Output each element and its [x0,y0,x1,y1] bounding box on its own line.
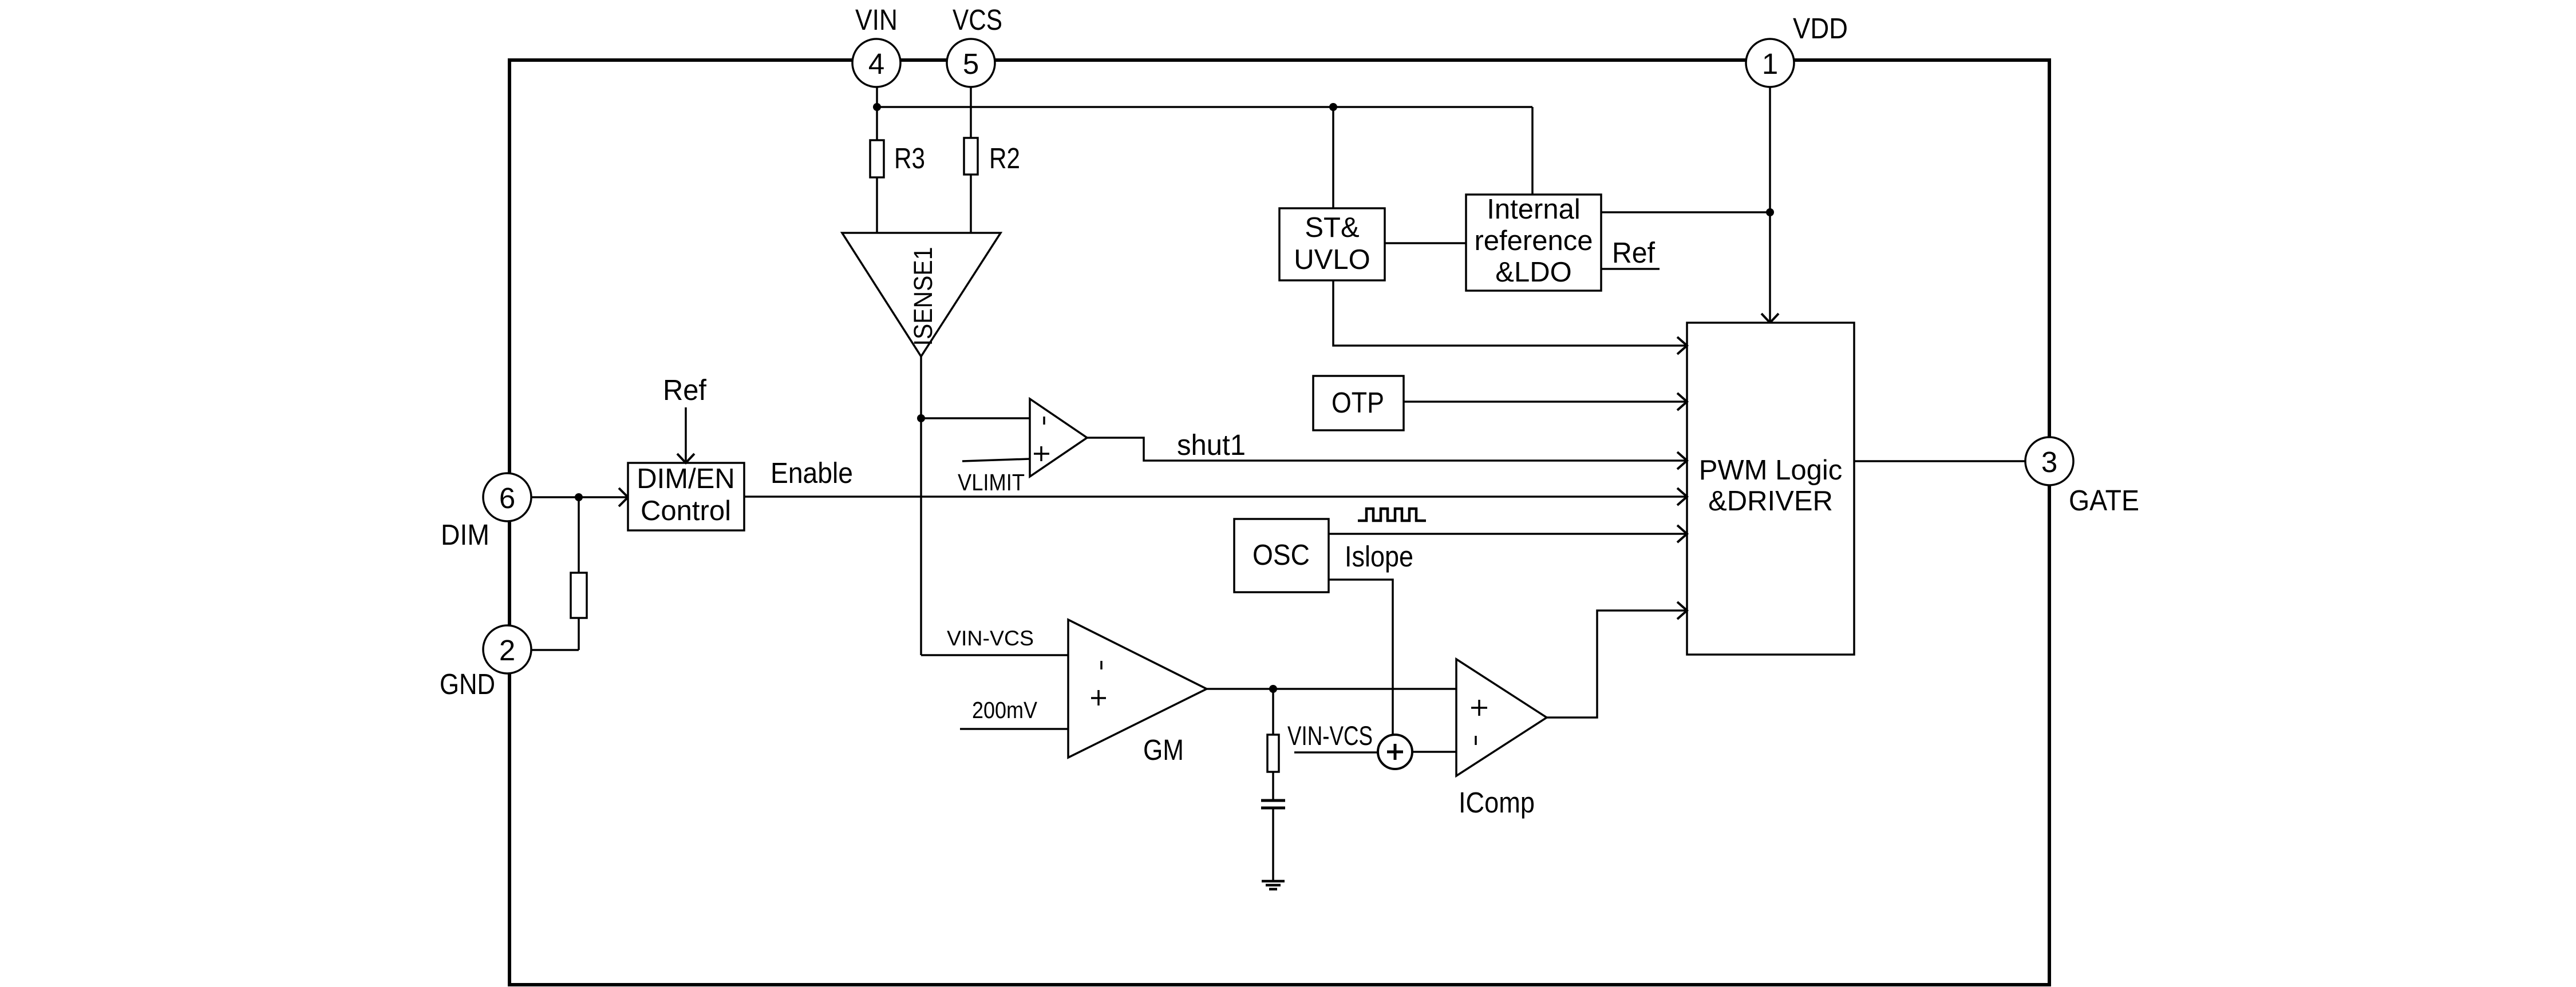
op-amp GM [1068,620,1207,758]
block OSC [1234,519,1329,592]
comparator VLIMIT [1030,399,1087,477]
svg-text:&LDO: &LDO [1495,257,1571,288]
block Internal reference & LDO [1466,194,1601,291]
node ISENSE1 output dot [917,414,925,422]
wire 200mV to GM plus input [960,728,1068,730]
pin 3 GATE [2025,437,2073,485]
op-amp ISENSE1 [842,233,1001,356]
pin 1 VDD [1746,39,1794,87]
wire OSC clock output to PWM [1329,533,1687,535]
wire VDD down to PWM [1769,87,1771,321]
svg-text:Islope: Islope [1345,540,1413,573]
wire to VLIMIT comparator minus input [921,417,1030,419]
svg-text:R3: R3 [894,142,925,175]
svg-text:VIN-VCS: VIN-VCS [947,627,1034,650]
pin 6 DIM wire to DIM/EN [531,496,628,498]
arrow into PWM from shut1 [1677,452,1687,469]
svg-text:200mV: 200mV [972,697,1038,723]
wire DIM pulldown resistor [531,497,579,650]
arrow into PWM from OSC clock [1677,525,1687,542]
block DIM/EN Control [628,463,744,530]
pin 6 DIM [483,473,531,521]
wire PWM output to GATE pin [1854,460,2025,462]
wire VIN-VCS stub into summing node [1294,751,1378,754]
svg-text:Ref: Ref [663,374,707,406]
svg-text:R2: R2 [989,142,1020,175]
svg-text:&DRIVER: &DRIVER [1708,486,1833,517]
block ST&UVLO [1279,208,1385,280]
resistor compensation [1267,735,1279,772]
svg-text:GM: GM [1143,734,1184,766]
wire OTP to PWM [1404,401,1687,403]
node DIM dot [575,493,583,501]
wire ST&UVLO down to PWM [1333,280,1687,346]
block PWM Logic & DRIVER [1687,323,1854,655]
node VDD junction dot [1766,208,1774,216]
resistor R3 [870,140,884,177]
svg-text:reference: reference [1474,225,1593,256]
arrow into PWM from OTP [1677,393,1687,410]
svg-text:5: 5 [963,47,979,80]
svg-text:ST&: ST& [1305,212,1359,243]
arrow into PWM from IComp [1677,602,1687,619]
svg-text:DIM/EN: DIM/EN [637,463,735,494]
svg-text:4: 4 [868,47,884,80]
wire IComp output to PWM [1547,611,1687,718]
svg-text:VCS: VCS [953,3,1002,36]
wire internal reference output to VDD line [1601,211,1770,213]
svg-text:VDD: VDD [1793,12,1848,45]
wire ST&UVLO to internal reference [1385,242,1466,244]
pin 5 VCS [947,39,995,87]
wire ISENSE1 output down [920,356,922,655]
wire VCS pin5 to R2 [970,87,972,233]
svg-text:shut1: shut1 [1177,429,1246,461]
arrow into PWM from Enable [1677,488,1687,505]
wire Enable to PWM [744,496,1687,498]
svg-text:VLIMIT: VLIMIT [958,469,1025,496]
svg-text:Control: Control [641,496,731,526]
wire GM output to IComp plus input [1207,688,1456,690]
arrow into DIM/EN [619,488,628,506]
svg-text:ISENSE1: ISENSE1 [908,247,938,346]
wire Islope to summing node [1329,580,1393,736]
svg-text:GATE: GATE [2069,484,2139,517]
wire branch down to ST&UVLO [1332,107,1334,208]
svg-text:DIM: DIM [441,518,489,551]
svg-text:3: 3 [2041,446,2057,478]
svg-text:Ref: Ref [1612,236,1656,269]
svg-text:UVLO: UVLO [1294,244,1370,275]
svg-text:IComp: IComp [1459,786,1535,819]
wire VIN-VCS to GM minus input [921,654,1068,656]
node GM output dot [1269,685,1277,693]
svg-text:VIN: VIN [855,3,898,36]
node ST&UVLO branch dot [1329,103,1337,111]
wire VIN pin4 to R3 and node [876,87,878,233]
wire Ref arrow down [677,407,694,463]
IC boundary box [509,60,2049,985]
capacitor compensation [1261,800,1285,881]
ground [1262,881,1285,889]
block OTP [1313,376,1404,430]
summing node circle [1378,735,1412,769]
svg-text:2: 2 [499,634,515,667]
wire VIN node horizontal to internal reference [877,107,1532,195]
svg-text:OTP: OTP [1332,386,1384,419]
pin 2 GND [483,625,531,673]
wire to compensation resistor [1272,689,1274,800]
clock waveform symbol [1358,509,1426,521]
wire summing node to IComp minus input [1412,751,1456,753]
svg-text:6: 6 [499,482,515,514]
arrow VDD into PWM [1761,314,1779,323]
svg-text:PWM Logic: PWM Logic [1699,455,1843,486]
svg-text:Enable: Enable [771,457,853,489]
comparator IComp [1456,659,1547,776]
resistor R2 [964,138,978,175]
pin 4 VIN [852,39,900,87]
svg-text:GND: GND [440,668,495,700]
svg-text:VIN-VCS: VIN-VCS [1287,720,1373,751]
svg-text:1: 1 [1762,47,1778,80]
wire shut1 from comparator to PWM [1087,438,1687,461]
node VIN junction dot [873,103,881,111]
svg-text:Internal: Internal [1487,194,1580,225]
svg-text:OSC: OSC [1253,538,1310,571]
wire VLIMIT stub [962,459,1030,461]
resistor DIM pulldown [571,573,587,618]
wire Ref stub [1601,268,1660,270]
arrow into PWM from ST&UVLO [1677,337,1687,354]
